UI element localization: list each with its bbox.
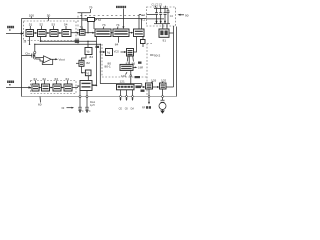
top-right dashed box 90-1	[147, 7, 176, 26]
channel signal label	[116, 6, 126, 8]
wire 51 to 52	[34, 32, 36, 34]
RF amp block 102	[160, 83, 167, 89]
capacitor C1	[155, 9, 158, 24]
svg-text:90-2: 90-2	[154, 54, 160, 58]
phase comparator block	[127, 49, 134, 57]
wires C box to 91	[163, 24, 167, 29]
svg-text:CK: CK	[125, 107, 129, 110]
wire 102 to rail	[166, 86, 174, 88]
capacitor Cr	[85, 107, 88, 110]
svg-text:84: 84	[115, 42, 119, 46]
pin circle left	[79, 96, 81, 98]
pin circle op-amp input 2	[34, 57, 36, 59]
wire crystal to phase comp	[128, 56, 130, 64]
junction dot	[29, 44, 30, 45]
small box LPF	[141, 40, 146, 44]
svg-text:102: 102	[161, 78, 166, 82]
ground	[160, 111, 165, 114]
svg-text:61: 61	[34, 77, 38, 81]
block 81	[80, 81, 92, 91]
svg-text:103: 103	[151, 78, 156, 82]
svg-text:63: 63	[55, 77, 59, 81]
wire 54 to 71	[71, 32, 78, 34]
wire bus2 down to RF chain	[99, 44, 101, 83]
RF output	[148, 89, 150, 103]
dashed box 60	[31, 81, 77, 94]
wire block 81 pin down right	[86, 91, 88, 107]
svg-text:64: 64	[66, 77, 70, 81]
svg-text:54: 54	[64, 23, 68, 27]
dashed box 70	[78, 15, 147, 44]
svg-text:52: 52	[40, 23, 44, 27]
svg-text:VCO: VCO	[114, 51, 119, 54]
svg-text:Vout: Vout	[59, 57, 65, 61]
wire phase comp to 75 loop	[134, 37, 137, 53]
svg-text:CE: CE	[119, 107, 123, 110]
capacitor C3	[164, 9, 167, 24]
mixer block 82	[79, 60, 84, 66]
crystal resonator X1	[161, 100, 165, 103]
svg-text:VC1: VC1	[141, 14, 146, 17]
outer IC box 100	[22, 19, 177, 97]
junction dot	[85, 19, 87, 21]
video input label	[7, 26, 14, 31]
capacitor 72	[88, 18, 95, 22]
block 54	[62, 30, 71, 37]
block 74	[113, 29, 129, 37]
block 53	[50, 30, 58, 37]
VC wires into box	[147, 15, 165, 19]
bottom rail	[154, 23, 170, 25]
wire 64 to 81	[72, 87, 78, 89]
wire 103 to 102	[153, 86, 158, 88]
block 62	[42, 84, 50, 91]
op-amp output	[51, 58, 56, 60]
wire 71 to 73	[85, 32, 93, 34]
pin circle right	[86, 96, 88, 98]
wire block 73 down to block 81 output node	[96, 37, 98, 86]
wire serial to crystal	[130, 70, 132, 84]
VC wires to varicap box	[139, 15, 142, 29]
wire 62 to 63	[50, 87, 52, 89]
feedback wire	[42, 59, 52, 64]
svg-text:60: 60	[38, 103, 42, 107]
arrow and label 90	[180, 14, 185, 16]
svg-text:RF: RF	[142, 107, 146, 110]
op-amp U1	[44, 56, 52, 63]
serial control block	[117, 84, 135, 90]
audio input label	[7, 81, 14, 86]
junction dot	[87, 41, 88, 42]
svg-text:C1 C2 C3: C1 C2 C3	[152, 3, 163, 6]
svg-text:½: ½	[107, 51, 110, 55]
RF amp block 103	[146, 83, 153, 89]
svg-text:91: 91	[163, 38, 167, 42]
junction dot	[100, 44, 101, 45]
svg-text:DA: DA	[131, 107, 135, 110]
svg-text:82: 82	[86, 61, 90, 65]
junction dot	[100, 51, 101, 52]
dashed box 90-2	[147, 44, 152, 97]
svg-text:83: 83	[90, 55, 94, 59]
junction dot	[81, 72, 82, 73]
wire divider 83 to mixer 82	[82, 55, 87, 61]
dashed box 50	[24, 21, 77, 41]
wire 63 to 64	[61, 87, 62, 89]
wire stub block 51 to bus	[29, 37, 31, 45]
ground	[79, 111, 82, 113]
junction dot	[40, 41, 41, 42]
wire mixer 82 to divider 84	[82, 66, 86, 73]
top rail	[154, 8, 168, 10]
svg-text:72: 72	[98, 18, 102, 22]
block 64	[64, 84, 72, 91]
wire 91 to right rail	[169, 26, 174, 87]
tiny label near bus end	[75, 40, 79, 41]
divider block 1/2 A	[85, 48, 92, 55]
capacitor Cin	[22, 54, 35, 58]
wire 53 to 54	[58, 32, 60, 34]
block 73	[95, 29, 111, 37]
wire block 81 pin down left	[79, 91, 81, 107]
dashed box 80-1	[102, 44, 147, 77]
wire pin stem	[34, 44, 36, 57]
svg-text:73: 73	[102, 23, 106, 27]
divider block 1/2 B	[85, 70, 91, 76]
svg-text:90: 90	[185, 14, 189, 18]
wire 74 to 75	[129, 32, 132, 34]
block 81 output stub	[92, 85, 97, 87]
svg-text:C: C	[82, 110, 84, 113]
svg-text:53: 53	[52, 23, 56, 27]
junction dot	[96, 85, 97, 86]
block 71	[80, 30, 86, 36]
block 61	[32, 84, 39, 91]
capacitor Cv	[78, 107, 81, 110]
svg-text:80-1: 80-1	[105, 64, 111, 68]
wire node 79	[78, 13, 97, 33]
capacitor C4	[167, 9, 170, 24]
svg-text:Cin: Cin	[25, 52, 30, 56]
wire to phase comp	[113, 51, 125, 53]
wire branch into divider 85	[100, 51, 104, 53]
capacitor C2	[159, 9, 162, 24]
pin circle crystal	[162, 96, 164, 98]
crystal osc block 101	[120, 64, 133, 70]
wire op-amp inputs	[36, 58, 44, 62]
block 63	[53, 84, 61, 91]
wire into mixer 82	[76, 62, 79, 64]
svg-text:121: 121	[120, 80, 125, 84]
wire 52 to 53	[46, 32, 48, 34]
label 84	[96, 46, 100, 48]
block 91	[159, 29, 169, 37]
svg-text:74: 74	[116, 23, 120, 27]
divider 1/2 C	[106, 49, 113, 56]
wire down from bus to divider A	[87, 41, 89, 47]
ground	[86, 111, 89, 113]
wire divider 84 to block 81	[87, 76, 89, 81]
wire 73 to 74	[110, 32, 113, 34]
wire stub block 52 to bus	[40, 37, 42, 42]
svg-text:62: 62	[43, 77, 47, 81]
fosc label	[135, 76, 141, 78]
wire into 103	[100, 84, 143, 87]
svg-text:½: ½	[86, 72, 89, 76]
wire video in	[6, 33, 24, 35]
long bus wires	[35, 41, 100, 44]
wire audio in	[6, 87, 30, 89]
svg-text:1/8R: 1/8R	[138, 66, 143, 69]
wire 61 to 62	[38, 87, 41, 89]
wire channel signal down	[122, 9, 124, 28]
serial control downward arrows	[121, 90, 133, 100]
block 52	[38, 30, 47, 37]
wire block 102 down to crystal	[162, 89, 164, 100]
block 75	[134, 29, 145, 37]
svg-text:C: C	[89, 110, 91, 113]
pin circle op-amp input 1	[34, 51, 36, 53]
block 51	[26, 30, 34, 37]
svg-text:½: ½	[87, 50, 90, 54]
svg-text:1μH: 1μH	[90, 104, 95, 107]
junction dot	[34, 44, 35, 45]
svg-text:VC2: VC2	[141, 18, 146, 21]
